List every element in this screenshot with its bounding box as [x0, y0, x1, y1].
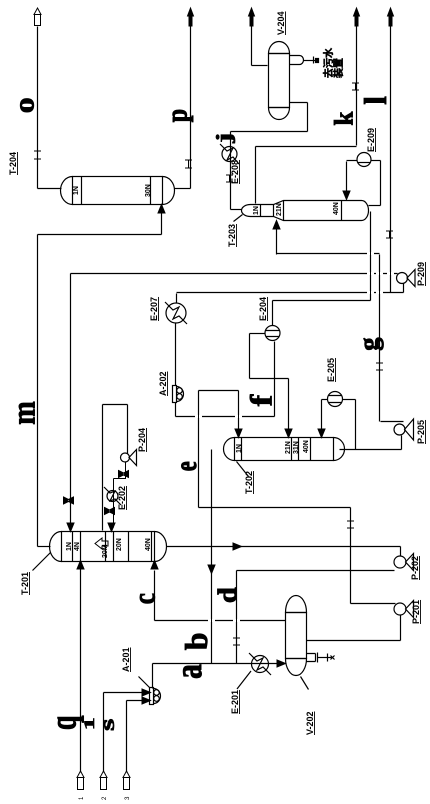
svg-text:V-202: V-202	[305, 711, 315, 735]
svg-text:s: s	[97, 719, 119, 731]
svg-text:P-205: P-205	[416, 420, 426, 444]
svg-text:P-202: P-202	[410, 556, 420, 580]
svg-text:P-201: P-201	[411, 600, 421, 624]
svg-text:l: l	[357, 96, 393, 105]
svg-text:20N: 20N	[116, 538, 123, 551]
svg-text:f: f	[245, 394, 279, 407]
svg-text:V-204: V-204	[276, 11, 286, 35]
svg-text:31N: 31N	[293, 441, 300, 454]
svg-text:4N: 4N	[74, 542, 81, 551]
svg-text:装置: 装置	[332, 58, 345, 79]
svg-text:T-201: T-201	[20, 572, 30, 595]
svg-text:E-208: E-208	[230, 160, 240, 184]
svg-text:E-204: E-204	[258, 297, 268, 321]
svg-text:T-204: T-204	[8, 152, 18, 175]
svg-text:A-202: A-202	[158, 371, 168, 396]
svg-text:k: k	[329, 111, 359, 126]
svg-text:q: q	[43, 715, 83, 730]
svg-text:j: j	[212, 133, 236, 144]
svg-text:40N: 40N	[333, 202, 340, 215]
svg-text:E-205: E-205	[326, 358, 336, 382]
svg-text:P-209: P-209	[416, 262, 426, 286]
svg-text:21N: 21N	[285, 441, 292, 454]
svg-text:p: p	[161, 109, 194, 122]
svg-text:E-209: E-209	[366, 128, 376, 152]
svg-text:m: m	[5, 401, 41, 425]
svg-text:E-202: E-202	[117, 486, 127, 510]
svg-text:1N: 1N	[253, 206, 260, 215]
svg-text:T-202: T-202	[244, 471, 254, 494]
svg-text:1N: 1N	[236, 444, 243, 453]
svg-text:g: g	[353, 337, 384, 351]
svg-text:d: d	[213, 587, 242, 603]
svg-text:1N: 1N	[73, 186, 80, 195]
svg-text:E-207: E-207	[149, 297, 159, 321]
svg-text:a: a	[169, 664, 210, 679]
svg-text:21N: 21N	[276, 203, 283, 216]
svg-text:T-203: T-203	[227, 224, 237, 247]
svg-text:P-204: P-204	[137, 428, 147, 452]
svg-text:E-201: E-201	[230, 690, 240, 714]
svg-text:c: c	[128, 593, 162, 604]
svg-text:1: 1	[82, 717, 98, 730]
svg-text:e: e	[169, 461, 203, 471]
svg-text:40N: 40N	[145, 538, 152, 551]
svg-text:o: o	[8, 97, 40, 113]
svg-text:b: b	[179, 633, 214, 651]
svg-text:30N: 30N	[145, 184, 152, 197]
svg-text:A-201: A-201	[121, 647, 131, 672]
svg-text:1N: 1N	[66, 542, 73, 551]
svg-text:40N: 40N	[303, 440, 310, 453]
